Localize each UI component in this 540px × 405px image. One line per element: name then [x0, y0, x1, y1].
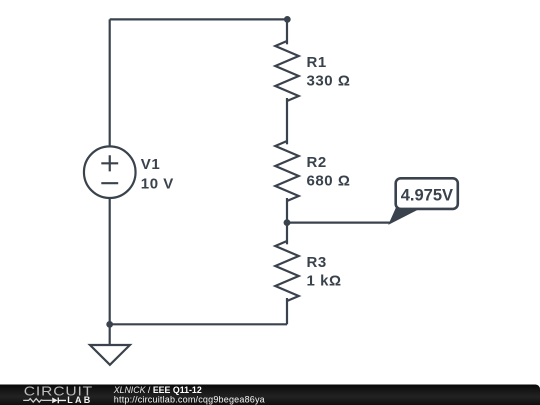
- logo diode: [52, 398, 58, 404]
- resistor R2 zigzag: [275, 141, 298, 201]
- wire bottom horizontal: [110, 323, 287, 325]
- resistor R3 zigzag: [275, 241, 298, 301]
- svg-text:R2: R2: [307, 154, 327, 171]
- wire R1 to R2: [286, 98, 288, 144]
- V1 plus sign: [101, 155, 118, 171]
- svg-text:LAB: LAB: [67, 395, 92, 405]
- node junction top right: [284, 16, 291, 23]
- wire left vertical (bottom): [109, 198, 111, 324]
- wire R2 to R3 through node B: [286, 198, 288, 244]
- resistor R1 zigzag: [275, 41, 298, 101]
- wire ground stem: [109, 324, 111, 345]
- svg-text:4.975V: 4.975V: [401, 186, 453, 204]
- wire R3 to bottom rail: [286, 298, 288, 324]
- svg-text:680 Ω: 680 Ω: [307, 173, 351, 190]
- svg-text:XLNICK / EEE Q11-12: XLNICK / EEE Q11-12: [113, 385, 202, 395]
- voltage source V1 circle: [84, 146, 136, 198]
- probe callout tail: [390, 209, 419, 224]
- wire R1 top lead from node A: [286, 19, 288, 44]
- node junction bottom left: [106, 321, 113, 328]
- wire probe horizontal: [287, 222, 390, 224]
- wire top horizontal: [110, 18, 288, 20]
- probe callout box: [396, 178, 458, 209]
- ground symbol: [90, 345, 130, 365]
- svg-text:R3: R3: [307, 254, 327, 271]
- svg-text:R1: R1: [307, 54, 327, 71]
- svg-text:V1: V1: [141, 156, 160, 173]
- svg-text:10 V: 10 V: [141, 176, 174, 193]
- logo resistor squiggle: [23, 399, 52, 403]
- node junction R2-R3: [284, 219, 291, 226]
- svg-text:http://circuitlab.com/cqg9bege: http://circuitlab.com/cqg9begea86ya: [114, 395, 265, 405]
- wire left vertical (top): [109, 19, 111, 146]
- svg-text:1 kΩ: 1 kΩ: [307, 273, 342, 290]
- V1 minus sign: [101, 182, 118, 184]
- svg-text:330 Ω: 330 Ω: [307, 73, 351, 90]
- footer bar: [0, 385, 540, 405]
